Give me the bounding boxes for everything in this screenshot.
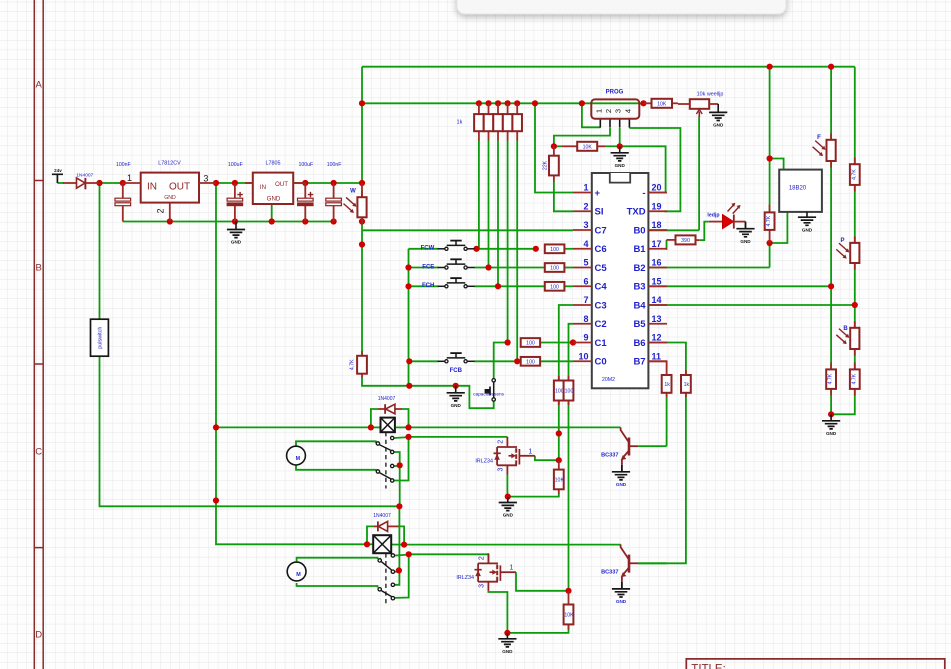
junction at 408.5,436.9: [405, 434, 411, 440]
resistor 4.7K chain2 bottom: [854, 363, 856, 370]
svg-text:24v: 24v: [54, 168, 62, 173]
wire C2 pin8 down: [569, 324, 574, 381]
LDR P body: [854, 236, 856, 243]
svg-text:SI: SI: [595, 207, 604, 218]
svg-text:W: W: [350, 189, 356, 195]
wire 24v down to pulswitch: [99, 183, 101, 319]
svg-text:B1: B1: [633, 244, 646, 255]
svg-text:4.7K: 4.7K: [851, 373, 857, 384]
capacitor C3 100uF: [304, 183, 306, 198]
svg-text:1k: 1k: [664, 382, 670, 388]
svg-text:3: 3: [583, 220, 588, 230]
svg-text:390: 390: [681, 238, 690, 244]
svg-text:BC337: BC337: [601, 453, 618, 459]
svg-text:4.7K: 4.7K: [766, 215, 772, 226]
24V supply symbol: [52, 174, 63, 183]
svg-text:M: M: [296, 572, 301, 578]
switch FCH: [438, 285, 445, 287]
junction at 362,221.5: [359, 218, 365, 224]
junction at 619.7,146.3: [617, 143, 623, 149]
svg-text:capacitivesens: capacitivesens: [473, 392, 504, 397]
junction at 370.9,427.4: [368, 424, 374, 430]
wire C3 to gate node 1: [558, 401, 560, 461]
junction at 399.7,465.3: [397, 462, 403, 468]
svg-text:C: C: [35, 447, 42, 458]
connector PROG: [591, 90, 639, 128]
wire pullup 2 to FCE: [488, 140, 490, 267]
wire 1k to BC337 2 base: [638, 393, 686, 564]
wire V+ mid rail: [362, 102, 644, 104]
svg-text:IN: IN: [260, 184, 266, 191]
svg-text:2: 2: [604, 109, 613, 113]
junction at 122.8,183: [120, 180, 126, 186]
svg-text:100: 100: [526, 359, 535, 365]
svg-text:+: +: [595, 188, 601, 199]
wire relay2 to mosfet2 drain: [409, 553, 489, 555]
svg-text:B6: B6: [633, 338, 645, 349]
junction at 581.9,103.3: [579, 100, 585, 106]
svg-text:1: 1: [509, 565, 513, 572]
wire capacitive sensor to C1 node: [494, 343, 508, 379]
wire pot wiper down: [698, 117, 700, 231]
junction at 831.1,414.3: [828, 411, 834, 417]
svg-text:FCW: FCW: [421, 246, 435, 252]
svg-text:19: 19: [652, 201, 662, 211]
wire coil2 left lead: [367, 543, 373, 545]
svg-text:13: 13: [652, 314, 662, 324]
wire reg1 out to reg2 in: [216, 182, 253, 184]
svg-text:C0: C0: [595, 357, 607, 368]
resistor 1k base1: [666, 393, 668, 397]
wire prog pin3 to gnd: [619, 128, 621, 146]
svg-text:1: 1: [528, 448, 532, 455]
svg-text:GND: GND: [502, 649, 513, 654]
svg-text:FCE: FCE: [422, 264, 434, 270]
wire LDR B to 4.7K c: [854, 349, 856, 369]
svg-text:B7: B7: [633, 357, 645, 368]
svg-text:1: 1: [594, 109, 603, 113]
resistor 4.7K chain2 top: [854, 158, 856, 165]
LDR F body: [830, 133, 832, 140]
svg-text:15: 15: [652, 276, 662, 286]
resistor 10K pot feed: [644, 102, 652, 104]
svg-text:1: 1: [127, 173, 132, 183]
junction at 478.9,103.3: [476, 100, 482, 106]
wire C7 net to pin3: [362, 229, 573, 231]
wire NO1 to NC2: [394, 437, 408, 481]
svg-text:1k: 1k: [457, 120, 463, 126]
capacitor C1 100nF: [122, 183, 124, 198]
svg-text:1k: 1k: [684, 382, 690, 388]
resistor 22K serial: [553, 146, 555, 155]
wire 1k to BC337 1 base: [666, 397, 668, 446]
svg-text:22K: 22K: [543, 160, 549, 170]
LDR B body: [854, 321, 856, 328]
svg-text:M: M: [296, 456, 301, 462]
svg-text:BC337: BC337: [601, 570, 618, 576]
wire NO1 relay2: [395, 554, 409, 557]
svg-text:GND: GND: [615, 163, 626, 168]
resistor 10K pulldown m1: [558, 460, 560, 469]
junction at 476.5,248.8: [473, 246, 479, 252]
resistor 100 gate2: [568, 376, 570, 381]
wire V+ to pin1: [535, 103, 573, 192]
svg-text:C1: C1: [595, 338, 608, 349]
wire gnd rail switches: [362, 378, 490, 408]
wire gnd to pin20: [620, 146, 666, 192]
svg-text:1N4007: 1N4007: [76, 173, 93, 179]
wire pullup 1 to FCW: [478, 140, 480, 249]
svg-text:16: 16: [652, 258, 662, 268]
transistor Q2 IRLZ34: [478, 553, 498, 591]
wire 10K m2 to gnd node: [507, 624, 568, 633]
wire mosfet2 drain lead: [487, 554, 489, 563]
regulator U2 L7805: [253, 173, 293, 204]
wire 10K m1 to gnd node: [508, 494, 559, 497]
junction at 488.5,267.5: [485, 264, 491, 270]
svg-text:100nF: 100nF: [327, 162, 342, 168]
wire motor1 top to contact: [296, 441, 376, 446]
svg-text:ledjp: ledjp: [707, 213, 719, 219]
junction at 235,221.5: [232, 218, 238, 224]
svg-text:2: 2: [583, 201, 588, 211]
junction at 404.1,544.6: [401, 542, 407, 548]
svg-text:1N4007: 1N4007: [378, 396, 396, 402]
wire V24 node: [100, 182, 123, 184]
wire mosfet1 gate: [535, 456, 559, 460]
wire LDR F down to 4.7K: [830, 161, 832, 369]
resistor 4.7K under LDR W: [361, 351, 363, 356]
wire motor2 bottom: [297, 583, 378, 588]
svg-text:6: 6: [583, 276, 588, 286]
switch FCW: [438, 248, 445, 250]
junction at 535.0,103.3: [532, 100, 538, 106]
ground LDR chains: [822, 421, 840, 429]
title block: [686, 659, 945, 669]
svg-text:FCB: FCB: [450, 368, 463, 374]
junction at 558.8,433.5: [556, 430, 562, 436]
svg-text:12: 12: [652, 333, 662, 343]
junction at 553.9,146.3: [551, 143, 557, 149]
svg-text:C7: C7: [595, 225, 607, 236]
wire relay1 to mosfet1 drain: [409, 436, 508, 438]
svg-text:100uF: 100uF: [228, 162, 243, 168]
wire cross to NO2 relay2: [395, 570, 400, 584]
svg-text:4: 4: [623, 109, 632, 113]
junction at 234.9,183: [232, 180, 238, 186]
junction at 498.0,103.3: [495, 100, 501, 106]
wire 12V to relay1 coil: [216, 426, 371, 428]
LDR W: [361, 183, 363, 197]
junction at 333.6,221.5: [331, 218, 337, 224]
junction at 831.1,286.3: [828, 283, 834, 289]
svg-text:100nF: 100nF: [116, 162, 131, 168]
junction at 507.6,103.3: [505, 100, 511, 106]
svg-text:TITLE:: TITLE:: [691, 663, 726, 669]
junction at 769.6,243.0: [767, 240, 773, 246]
wire FCH left: [409, 285, 439, 287]
wire V+ riser: [361, 67, 363, 183]
svg-text:L7812CV: L7812CV: [158, 161, 181, 167]
resistor 4.7K chain1: [830, 363, 832, 370]
wire DS18B20 data pin: [770, 212, 788, 243]
svg-text:100: 100: [526, 341, 535, 347]
wire diode2 right: [399, 526, 404, 544]
svg-text:B2: B2: [633, 263, 645, 274]
wire pullup 3 to FCH: [497, 140, 499, 286]
svg-text:18B20: 18B20: [789, 186, 807, 192]
wire B6 pin12 to 1k: [648, 343, 686, 376]
svg-text:4.7K: 4.7K: [350, 359, 356, 370]
junction at 507.6,342.5: [505, 339, 511, 345]
svg-text:100uF: 100uF: [298, 162, 313, 168]
junction at 408.5,427.4: [405, 424, 411, 430]
svg-text:C6: C6: [595, 244, 607, 255]
svg-text:GND: GND: [231, 240, 242, 245]
junction at 216,500.5: [213, 497, 219, 503]
svg-text:10k weelljp: 10k weelljp: [697, 92, 724, 98]
junction at 305.3,183: [302, 180, 308, 186]
wire motor1 bottom to contact: [296, 466, 376, 472]
svg-text:5: 5: [583, 258, 588, 268]
junction at 305.3,221.5: [302, 218, 308, 224]
wire rail to LDR F: [830, 67, 832, 161]
LED ledjp: [709, 221, 723, 223]
transistor Q1 IRLZ34: [497, 437, 517, 475]
transistor Q3 BC337: [628, 438, 631, 456]
wire pullup 4 to C1: [507, 140, 509, 342]
svg-text:GND: GND: [802, 227, 813, 232]
junction at 769.6,66.7: [767, 64, 773, 70]
resistor 100 C1: [521, 338, 540, 347]
wire diode1 right: [402, 409, 409, 427]
svg-text:B: B: [843, 326, 848, 332]
svg-text:9: 9: [583, 333, 588, 343]
junction at 854.8,305.0: [852, 302, 858, 308]
svg-text:10: 10: [578, 351, 588, 361]
junction at 573,342.5: [570, 339, 576, 345]
svg-text:18: 18: [652, 220, 662, 230]
relay K1: [381, 418, 395, 433]
svg-text:B4: B4: [633, 300, 646, 311]
svg-text:GND: GND: [164, 195, 176, 201]
junction at 408.5,267.5: [405, 264, 411, 270]
junction at 408.7,554.3: [406, 551, 412, 557]
junction at 367,544.3: [364, 541, 370, 547]
svg-text:4.7K: 4.7K: [828, 373, 834, 384]
svg-text:-: -: [642, 188, 645, 199]
wire FCE left: [409, 267, 439, 269]
wire reg2 gnd pin: [271, 204, 273, 222]
wire motor2 top: [297, 558, 378, 562]
svg-text:20: 20: [652, 183, 662, 193]
svg-text:IRLZ34: IRLZ34: [456, 575, 474, 581]
svg-text:GND: GND: [826, 431, 837, 436]
svg-text:11: 11: [652, 351, 662, 361]
regulator U1 L7812CV: [141, 173, 199, 203]
svg-text:2: 2: [156, 208, 166, 213]
svg-text:GND: GND: [503, 513, 514, 518]
wire prog pin2 serial in: [554, 128, 610, 146]
wire coil1 left lead: [371, 426, 380, 428]
diode 1N4007 relay2: [378, 521, 387, 531]
svg-text:pulswitch: pulswitch: [98, 327, 104, 349]
svg-text:GND: GND: [740, 239, 751, 244]
ground DS18B20: [798, 217, 816, 225]
ground under PROG: [611, 153, 629, 161]
IC U3 PICAXE 20M2: [592, 173, 649, 388]
resistor 100 gate1: [558, 376, 560, 381]
diode 1N4007 relay1: [385, 408, 395, 410]
junction at 517.2,103.3: [514, 100, 520, 106]
wire mosfet2 source to gnd: [488, 591, 507, 633]
svg-text:100: 100: [550, 247, 559, 253]
switch FCB: [438, 360, 445, 362]
resistor 100 FCW: [545, 244, 565, 253]
wire coil2 to BC337 2 collector: [404, 544, 621, 546]
wire data node riser: [769, 243, 771, 268]
wire FCW left: [409, 248, 439, 250]
junction at 362,183: [359, 180, 365, 186]
junction at 409.3,361.3: [406, 358, 412, 364]
wire gnd rail under regulators: [123, 221, 334, 223]
junction at 498.0,286.3: [495, 283, 501, 289]
switch S1 pulswitch: [91, 319, 109, 356]
diode 1N4007 input: [63, 182, 77, 184]
wire 10K to gnd node: [605, 145, 620, 147]
capacitor C4 100nF: [333, 183, 335, 198]
resistor pack 1k: [478, 103, 480, 114]
wire coil1 to BC337 1 collector: [409, 426, 621, 428]
wire LDR W to 4.7K: [361, 230, 363, 355]
wire gnd node to 4.7K c: [831, 389, 855, 414]
svg-text:C2: C2: [595, 319, 607, 330]
wire 390 to LED: [699, 222, 709, 241]
svg-text:3: 3: [479, 584, 486, 588]
svg-text:10K: 10K: [657, 101, 667, 107]
ground mosfet1: [499, 503, 517, 511]
svg-text:4: 4: [583, 239, 588, 249]
junction at 99.5,183: [96, 180, 102, 186]
svg-text:3: 3: [498, 467, 505, 471]
svg-text:10K: 10K: [555, 477, 565, 483]
junction at 169.8,221.5: [167, 218, 173, 224]
wire 10K to node: [554, 145, 562, 147]
wire mosfet1 source to gnd: [506, 475, 508, 497]
svg-text:C3: C3: [595, 300, 607, 311]
svg-text:B0: B0: [633, 225, 645, 236]
wire to capacitive sensor: [490, 402, 494, 409]
wire 12V down to relay coils: [216, 183, 367, 544]
svg-text:L7805: L7805: [266, 161, 281, 167]
svg-text:GND: GND: [451, 403, 462, 408]
wire NO2: [394, 465, 399, 467]
junction at 558.8,460.2: [556, 457, 562, 463]
wire prog pin1 to V+: [582, 103, 600, 127]
junction at 409.3,385.8: [406, 383, 412, 389]
svg-text:8: 8: [583, 314, 588, 324]
wire 4.7K d to LDR P: [854, 185, 856, 243]
junction at 399.4,506.3: [396, 503, 402, 509]
wire coil1 right lead: [396, 426, 409, 428]
wire diode2 left: [367, 526, 375, 544]
resistor 100 FCH: [545, 282, 565, 291]
svg-text:2: 2: [497, 440, 504, 444]
resistor 1k base2: [685, 370, 687, 375]
svg-text:B3: B3: [633, 282, 645, 293]
wire B3 pin15 to LDR F: [648, 285, 831, 287]
svg-text:20M2: 20M2: [602, 377, 615, 383]
svg-text:IRLZ34: IRLZ34: [475, 459, 493, 465]
svg-text:GND: GND: [713, 123, 724, 128]
sensor DS18B20: [779, 170, 822, 212]
svg-text:3: 3: [203, 174, 208, 184]
junction at 362,103.3: [359, 100, 365, 106]
wire contact NO1: [394, 436, 408, 439]
junction at 271.7,221.5: [269, 218, 275, 224]
svg-text:B5: B5: [633, 319, 646, 330]
ground under regulators: [227, 230, 245, 238]
svg-text:B: B: [36, 263, 42, 274]
svg-text:10K: 10K: [583, 144, 593, 150]
resistor 100 C0: [521, 357, 540, 366]
wire switches common vertical: [408, 249, 410, 386]
svg-text:2: 2: [478, 556, 485, 560]
svg-text:100: 100: [555, 389, 564, 395]
svg-text:FCH: FCH: [422, 283, 434, 289]
wire FCE right to R: [474, 267, 545, 269]
junction at 568.5,590.8: [565, 588, 571, 594]
svg-text:C5: C5: [595, 263, 608, 274]
wire 4.7K b to gnd node: [830, 389, 832, 414]
switch FCE: [438, 267, 445, 269]
wire pulswitch to relay contacts: [100, 356, 400, 506]
svg-text:GND: GND: [267, 196, 281, 203]
svg-text:TXD: TXD: [627, 207, 646, 218]
svg-text:1: 1: [583, 183, 588, 193]
ground under potentiometer: [709, 112, 727, 120]
junction at 535.8,248.8: [533, 246, 539, 252]
svg-text:7: 7: [583, 295, 588, 305]
wire under LDR W: [361, 222, 363, 231]
junction at 216,427.4: [213, 424, 219, 430]
wire FCH right to R: [474, 285, 545, 287]
wire 24V line to NC contact relay2: [398, 506, 400, 570]
resistor 100 FCE: [545, 263, 565, 272]
svg-text:4.7K: 4.7K: [851, 169, 857, 180]
svg-text:100: 100: [565, 389, 574, 395]
svg-text:17: 17: [652, 239, 662, 249]
motor M2: [287, 562, 306, 581]
wire pullup 5 to C0: [516, 140, 518, 361]
wire NC1 down: [394, 452, 399, 465]
svg-text:A: A: [36, 80, 43, 91]
wire cross pair to 24V line: [399, 465, 401, 506]
resistor 390: [676, 235, 696, 244]
wire V+ to DS18B20 vdd: [770, 159, 784, 170]
wire 5V rail: [293, 182, 362, 184]
wire coil2 right lead: [391, 544, 404, 546]
capacitor C2 100uF: [234, 183, 236, 198]
wire FCB right to R C0: [474, 360, 521, 362]
svg-text:IN: IN: [147, 182, 157, 193]
transistor Q4 BC337: [628, 555, 631, 573]
wire top V+ rail: [362, 66, 855, 68]
wire B0 pin18 to pot wiper: [648, 229, 699, 231]
wire mosfet2 gate: [516, 572, 569, 591]
wire NO1 to NC2 relay2: [395, 554, 409, 598]
wire prog pin4 to TXD: [629, 128, 680, 211]
